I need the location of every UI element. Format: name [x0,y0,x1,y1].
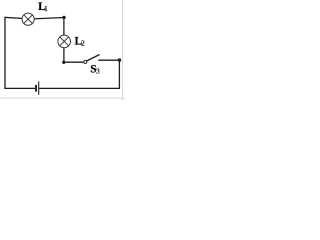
wire: left side (top-left corner down to bottom-left corner) [4,17,6,89]
wire: L2 branch upper vertical segment [63,17,65,35]
wire: L2 branch lower vertical segment to node B [63,48,65,63]
node B (junction dot at bottom of L2 branch) [62,61,65,64]
svg-text:1: 1 [44,4,48,13]
node A (junction dot at top of L2 branch) [62,16,65,19]
switch S3 [84,55,100,64]
wire: top side, lamp L1 to node A [33,18,64,19]
node C (junction dot at top of right wire) [118,58,121,61]
wire: switch fixed contact to node C [98,59,119,61]
wire: bottom left (battery negative plate to corner) [4,87,35,89]
wire: node B to switch pivot [64,61,84,63]
svg-text:3: 3 [96,67,100,76]
wire: right side (node C down to bottom-right corner) [118,60,120,89]
wire: bottom right (corner to battery positive plate) [39,87,120,89]
battery cell [36,81,39,94]
lamp L1 [22,13,34,25]
svg-text:2: 2 [81,39,85,48]
lamp L2 [58,35,71,48]
wire: top side, corner to lamp L1 [4,17,23,18]
